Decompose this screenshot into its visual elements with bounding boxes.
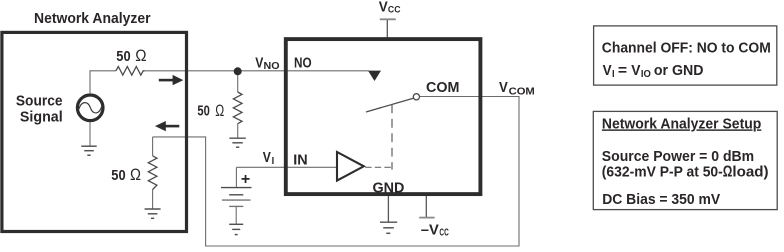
svg-text:DC Bias = 350 mV: DC Bias = 350 mV bbox=[602, 192, 720, 208]
svg-text:50: 50 bbox=[111, 167, 125, 184]
svg-text:Ω: Ω bbox=[130, 165, 141, 184]
svg-text:Source Power = 0 dBm: Source Power = 0 dBm bbox=[602, 149, 754, 165]
svg-text:NO: NO bbox=[264, 61, 280, 72]
svg-text:load): load) bbox=[732, 165, 768, 181]
svg-text:GND: GND bbox=[373, 180, 405, 196]
svg-text:Source: Source bbox=[16, 93, 63, 109]
svg-text:IO: IO bbox=[641, 69, 651, 80]
svg-text:or GND: or GND bbox=[654, 63, 704, 79]
svg-text:Network Analyzer: Network Analyzer bbox=[34, 11, 151, 27]
svg-text:V: V bbox=[603, 63, 612, 79]
svg-text:(632-mV P-P at 50-: (632-mV P-P at 50- bbox=[602, 165, 723, 181]
svg-text:I: I bbox=[612, 69, 615, 80]
svg-text:Signal: Signal bbox=[20, 110, 63, 126]
svg-text:COM: COM bbox=[509, 86, 535, 97]
svg-text:50: 50 bbox=[116, 48, 130, 65]
svg-text:COM: COM bbox=[426, 80, 459, 96]
svg-text:Network Analyzer Setup: Network Analyzer Setup bbox=[602, 116, 762, 132]
svg-text:V: V bbox=[499, 79, 508, 96]
svg-text:V: V bbox=[379, 0, 388, 15]
svg-text:+: + bbox=[241, 171, 250, 188]
svg-text:I: I bbox=[272, 156, 275, 167]
svg-text:V: V bbox=[631, 63, 641, 79]
svg-text:V: V bbox=[255, 54, 263, 71]
svg-text:CC: CC bbox=[439, 228, 448, 239]
svg-text:Ω: Ω bbox=[723, 164, 733, 181]
svg-text:NO: NO bbox=[294, 56, 312, 72]
svg-text:IN: IN bbox=[293, 153, 307, 169]
svg-text:=: = bbox=[618, 63, 627, 79]
svg-text:CC: CC bbox=[388, 4, 401, 15]
svg-text:Channel OFF: NO to COM: Channel OFF: NO to COM bbox=[602, 41, 771, 57]
svg-text:–V: –V bbox=[421, 221, 439, 238]
svg-text:Ω: Ω bbox=[135, 46, 146, 65]
svg-text:50: 50 bbox=[197, 103, 209, 120]
svg-text:Ω: Ω bbox=[215, 101, 224, 120]
svg-text:V: V bbox=[263, 149, 271, 166]
